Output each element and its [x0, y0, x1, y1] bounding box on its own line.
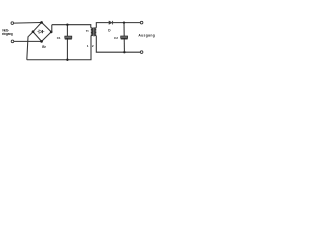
junction dot C2 bottom	[123, 51, 125, 53]
wire input bottom	[14, 40, 42, 42]
svg-text:Ausgang: Ausgang	[138, 34, 155, 38]
wire diode to output top	[113, 22, 141, 24]
transformer Tr core	[93, 27, 96, 36]
junction dot C1 top	[66, 24, 68, 26]
node input terminal top	[11, 22, 14, 25]
label winding 1	[87, 44, 89, 48]
junction dot bridge left corner	[32, 30, 35, 33]
node output terminal top	[140, 21, 143, 24]
svg-text:C2: C2	[114, 36, 118, 40]
junction dot C1 bottom	[66, 59, 68, 61]
junction dot C2 top	[123, 21, 125, 23]
junction dot bridge bottom corner	[40, 40, 43, 43]
transformer Tr primary winding	[91, 28, 93, 36]
node output terminal bottom	[140, 51, 143, 54]
bridge rectifier Br diamond	[33, 22, 51, 41]
wire plus rail top	[52, 25, 91, 28]
capacitor C2 body	[121, 36, 128, 39]
wire input top	[14, 22, 42, 25]
svg-text:1: 1	[87, 44, 89, 48]
wire secondary top to diode rail	[96, 23, 109, 28]
transformer Tr secondary winding	[95, 28, 97, 36]
wire bridge left corner to minus rail	[27, 32, 33, 60]
bridge inner diode symbol	[37, 30, 44, 33]
capacitor C1 wire	[66, 25, 68, 60]
node input terminal bottom	[11, 40, 14, 43]
svg-text:2: 2	[92, 44, 94, 48]
label C2	[114, 36, 118, 40]
junction dot bridge top corner	[40, 21, 43, 24]
label D	[108, 29, 111, 33]
capacitor C2 wire	[123, 23, 125, 53]
svg-text:Tr: Tr	[86, 29, 90, 33]
wire minus rail bottom	[27, 36, 91, 60]
label C1	[57, 36, 61, 40]
label winding 2	[92, 44, 94, 48]
svg-text:Br: Br	[42, 45, 46, 49]
svg-text:D: D	[108, 29, 111, 33]
svg-text:eingang: eingang	[2, 32, 13, 36]
label Ausgang	[138, 34, 155, 38]
diode D	[109, 21, 113, 25]
label Tr	[86, 29, 90, 33]
label Br	[42, 45, 46, 49]
capacitor C1 body	[65, 36, 72, 39]
junction dot bridge right corner	[50, 31, 53, 34]
wire secondary bottom return	[96, 36, 140, 53]
wire bridge right corner riser	[50, 25, 53, 32]
label Netz-eingang	[2, 29, 13, 37]
svg-text:C1: C1	[57, 36, 61, 40]
